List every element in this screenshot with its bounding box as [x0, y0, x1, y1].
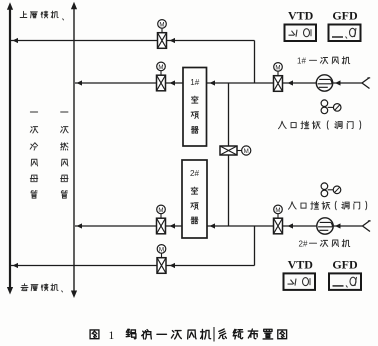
- pipe: primary cold air header (vertical, left): [7, 2, 13, 294]
- inlet chevron: fan 2 suction from atmosphere: [363, 221, 371, 232]
- valve: cold bypass valve (fan 1), motor actuator: [158, 20, 167, 49]
- wire: fan 2 discharge line to preheater 2: [207, 223, 362, 228]
- label: 预 (pre): [191, 203, 198, 210]
- svg-text:M: M: [159, 21, 164, 28]
- valve: preheater-2 hot air outlet valve, motor actuator: [157, 205, 166, 234]
- svg-text:GFD: GFD: [332, 8, 358, 22]
- box: GFD indicator (top): [329, 25, 361, 42]
- valve: fan 2 discharge valve, motor actuator: [274, 205, 283, 234]
- equipment: air preheater 2 box: [182, 160, 207, 238]
- svg-text:M: M: [275, 64, 280, 71]
- label: 预 (pre): [191, 112, 198, 119]
- wire: bypass riser from fan-1 discharge up to R1: [254, 41, 256, 84]
- svg-text:M: M: [159, 246, 164, 253]
- svg-text:1#: 1#: [190, 78, 200, 87]
- svg-text:M: M: [158, 64, 163, 71]
- pipe: primary hot air header (vertical, second): [71, 2, 77, 298]
- damper symbol: fan 2 inlet damper (figure-8 + drive circle): [321, 183, 341, 197]
- label: 入口挡板(调门) (inlet damper), fan 1: [278, 121, 286, 129]
- label: 器 (heater/vessel): [191, 217, 198, 224]
- label: 一次热风母管 (primary hot air header), vertical: [61, 111, 68, 113]
- wire: fan 1 discharge line to preheater 1: [207, 80, 363, 85]
- wire: crossover duct between fan 1 and fan 2 lines: [228, 83, 230, 226]
- svg-text:M: M: [275, 207, 280, 214]
- wire: top cold-air bypass line R1: [11, 38, 255, 43]
- svg-text:1#: 1#: [297, 57, 306, 66]
- box: VTD indicator (bottom): [284, 273, 316, 290]
- valve: crossover valve (horizontal), actuator circle right: [220, 146, 251, 155]
- box: VTD indicator (top): [285, 25, 317, 42]
- label: 器 (heater/vessel): [191, 127, 198, 134]
- damper symbol: fan 1 inlet damper (figure-8 + drive circle): [321, 100, 341, 114]
- equipment: air preheater 1 box: [183, 68, 207, 147]
- label: 去磨煤机 (to mills, bottom): [21, 284, 28, 291]
- wire: valve to preheater 2: [166, 223, 183, 228]
- svg-text:VTD: VTD: [288, 258, 314, 272]
- svg-text:2#: 2#: [190, 169, 200, 178]
- svg-text:1: 1: [109, 330, 115, 342]
- svg-text:M: M: [244, 148, 249, 155]
- label: 一次冷风母管 (primary cold air header), vertical: [30, 111, 37, 113]
- svg-text:2#: 2#: [299, 240, 308, 249]
- caption: 图1 锅炉一次风机系统布置图: [90, 330, 99, 339]
- inlet chevron: fan 1 suction from atmosphere: [362, 78, 370, 89]
- artifact: vertical scan line in caption: [213, 327, 215, 342]
- svg-text:GFD: GFD: [332, 258, 358, 272]
- label: 入口挡板(调门) (inlet damper), fan 2: [288, 202, 296, 210]
- wire: bottom cold-air bypass line R4: [11, 263, 255, 268]
- label: 空 (air): [191, 96, 198, 103]
- fan: 1# primary air fan: [316, 75, 332, 91]
- fan: 2# primary air fan: [317, 218, 333, 234]
- label: 空 (air): [191, 187, 198, 194]
- valve: preheater-1 hot air outlet valve, motor actuator: [157, 62, 166, 91]
- svg-text:M: M: [158, 207, 163, 214]
- valve: fan 1 discharge valve, motor actuator: [274, 63, 283, 92]
- label: 上磨煤机 (to mills, top): [20, 11, 27, 17]
- wire: valve to preheater 1: [166, 80, 184, 85]
- box: GFD indicator (bottom): [329, 273, 361, 290]
- svg-text:VTD: VTD: [288, 8, 314, 22]
- wire: hot air outlet of preheater 2 to hot header: [75, 223, 157, 228]
- wire: bypass riser from fan-2 discharge down to R4: [254, 226, 256, 266]
- valve: cold bypass valve (fan 2), motor actuator: [157, 245, 166, 274]
- wire: hot air outlet of preheater 1 to hot header: [75, 80, 157, 85]
